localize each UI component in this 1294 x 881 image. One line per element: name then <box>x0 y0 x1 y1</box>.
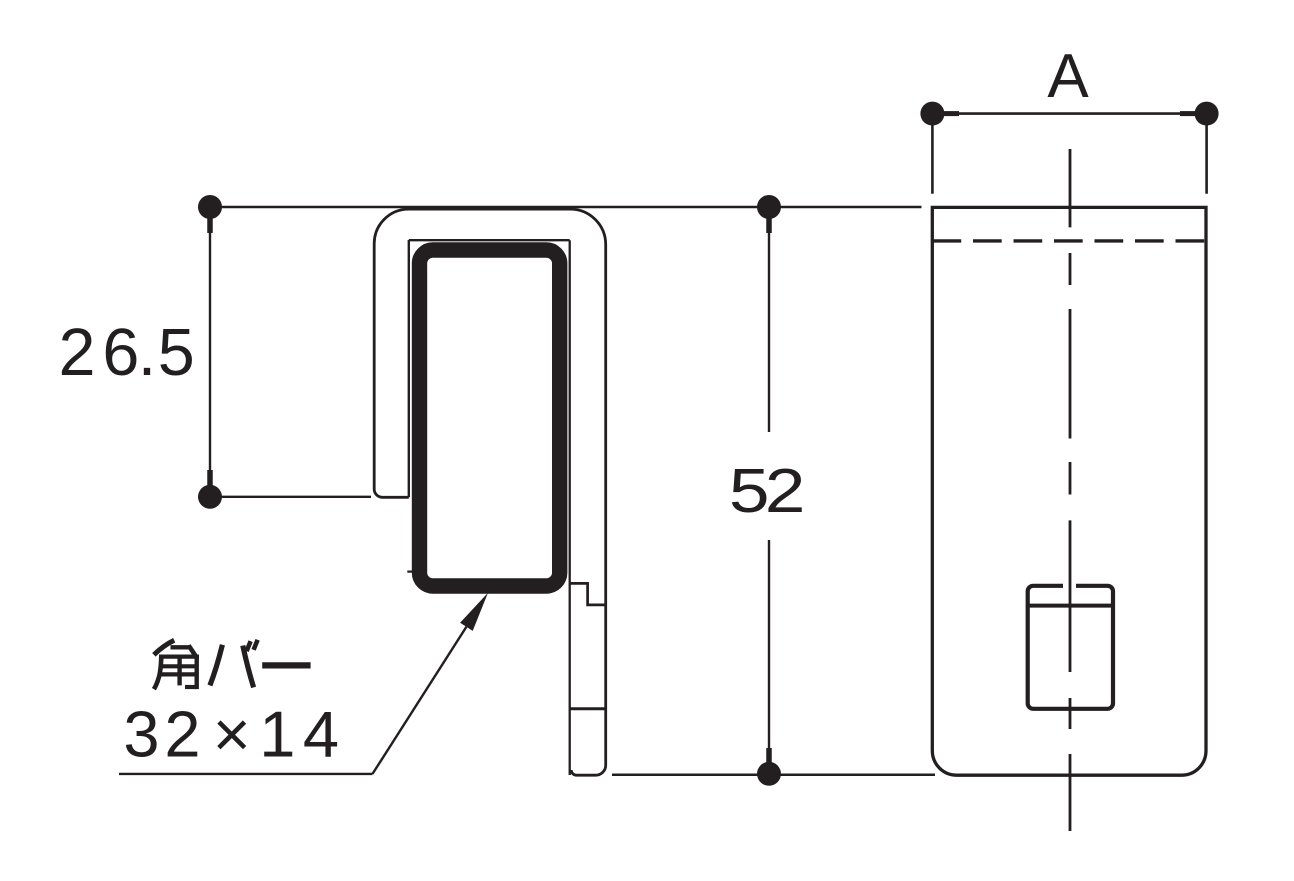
svg-text:5: 5 <box>158 316 195 390</box>
svg-text:6: 6 <box>102 316 139 390</box>
svg-text:×: × <box>213 698 251 771</box>
svg-text:1: 1 <box>259 698 295 771</box>
svg-text:2: 2 <box>164 698 200 771</box>
svg-text:52: 52 <box>729 457 803 526</box>
svg-text:2: 2 <box>59 316 96 390</box>
svg-text:.: . <box>138 316 156 390</box>
svg-text:A: A <box>1047 42 1089 111</box>
svg-text:3: 3 <box>123 698 159 771</box>
svg-text:4: 4 <box>303 698 339 771</box>
